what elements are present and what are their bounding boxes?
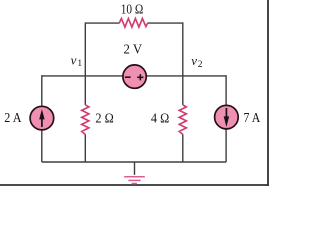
- svg-text:v: v: [71, 52, 77, 67]
- svg-text:10 Ω: 10 Ω: [121, 3, 144, 18]
- svg-text:2 Ω: 2 Ω: [95, 111, 113, 126]
- svg-text:2 V: 2 V: [124, 43, 143, 58]
- svg-text:2 A: 2 A: [4, 111, 22, 126]
- svg-text:1: 1: [77, 59, 82, 69]
- svg-text:2: 2: [198, 60, 203, 70]
- svg-text:4 Ω: 4 Ω: [151, 111, 169, 126]
- svg-text:v: v: [191, 53, 197, 68]
- svg-text:7 A: 7 A: [244, 111, 262, 126]
